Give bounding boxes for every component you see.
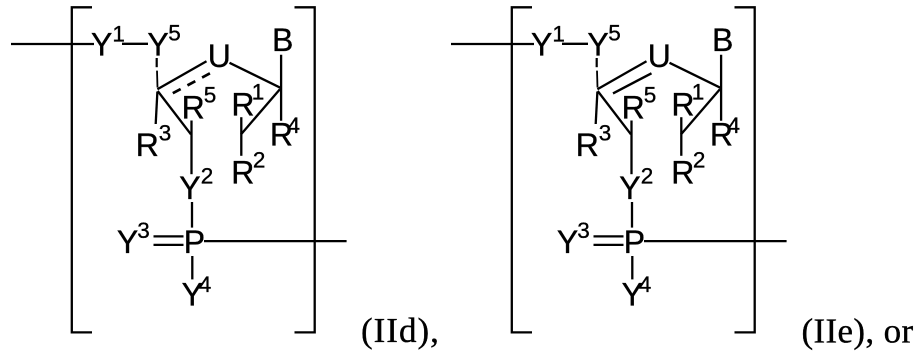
svg-text:Y: Y (117, 224, 138, 260)
bond Y2-P vertical (631, 202, 633, 228)
bond P-chain right (644, 240, 787, 242)
double bond Y3=P lower line (154, 244, 184, 246)
bond C-R2 diagonal (681, 89, 720, 134)
bond R1-R2 vertical (240, 117, 242, 156)
svg-text:3: 3 (577, 218, 590, 243)
svg-text:R: R (136, 127, 159, 163)
svg-text:3: 3 (599, 120, 612, 145)
svg-text:1: 1 (252, 79, 265, 104)
svg-text:3: 3 (137, 218, 150, 243)
svg-text:Y: Y (91, 26, 112, 62)
bond C-R2 diagonal (241, 89, 280, 134)
svg-text:R: R (622, 89, 645, 125)
svg-text:P: P (624, 224, 645, 260)
svg-text:4: 4 (728, 113, 741, 138)
bond Y2-P vertical (191, 202, 193, 228)
svg-text:2: 2 (201, 163, 214, 188)
svg-text:(IIe), or: (IIe), or (802, 311, 914, 350)
bond C-Y2 diagonal (598, 91, 631, 134)
svg-text:R: R (182, 89, 205, 125)
bond B-C-R4 vertical (280, 55, 282, 121)
svg-text:2: 2 (641, 163, 654, 188)
bond C-Y2 diagonal (158, 91, 191, 134)
svg-text:4: 4 (639, 272, 652, 297)
bond C-U (597, 61, 646, 89)
svg-text:R: R (576, 127, 599, 163)
bond C-U (157, 61, 206, 89)
bond C-R3 (596, 92, 598, 125)
double bond Y3=P upper line (154, 235, 184, 237)
bond Y5-C upper dash (596, 58, 598, 67)
inner line of C=U double bond of (IIe) (613, 73, 652, 93)
bond Y5-C upper dash (156, 58, 158, 67)
svg-text:P: P (184, 224, 205, 260)
svg-text:B: B (712, 22, 733, 58)
svg-text:R: R (231, 155, 254, 191)
svg-text:Y: Y (587, 26, 608, 62)
svg-text:4: 4 (199, 272, 212, 297)
bond Y1-Y5 (122, 43, 148, 45)
svg-text:5: 5 (608, 20, 621, 45)
svg-text:5: 5 (168, 20, 181, 45)
double bond Y3=P lower line (594, 244, 624, 246)
structure (IIe) (451, 7, 787, 332)
svg-text:Y: Y (179, 170, 200, 206)
bond P-chain right (204, 240, 347, 242)
svg-text:2: 2 (253, 148, 266, 173)
right bracket of (IId) (295, 7, 315, 332)
svg-text:(IId),: (IId), (361, 311, 440, 350)
svg-text:B: B (272, 22, 293, 58)
svg-text:1: 1 (692, 79, 705, 104)
svg-text:U: U (208, 38, 231, 74)
svg-text:2: 2 (693, 148, 706, 173)
bond Y5-C lower segment (156, 71, 159, 88)
bond P-Y4 vertical (191, 256, 193, 279)
svg-text:R: R (671, 155, 694, 191)
svg-text:1: 1 (112, 21, 125, 46)
bond R1-R2 vertical (680, 117, 682, 156)
svg-text:Y: Y (619, 170, 640, 206)
svg-text:Y: Y (531, 26, 552, 62)
bond P-Y4 vertical (631, 256, 633, 279)
structure (IId) (11, 7, 347, 332)
dashed partial double bond C~U of (IId) (173, 73, 211, 93)
svg-text:U: U (648, 38, 671, 74)
double bond Y3=P upper line (594, 235, 624, 237)
bond Y5-C lower segment (596, 71, 599, 88)
left bracket of (IId) (72, 7, 92, 332)
bond R5-Y2 vertical (630, 121, 632, 175)
svg-text:5: 5 (644, 83, 657, 108)
svg-text:1: 1 (552, 21, 565, 46)
svg-text:Y: Y (557, 224, 578, 260)
right bracket of (IIe) (735, 7, 755, 332)
bond Y1-Y5 (562, 43, 588, 45)
left bracket of (IIe) (512, 7, 532, 332)
svg-text:Y: Y (147, 26, 168, 62)
polymer chain bond into (IIe) (451, 43, 534, 45)
bond C-R3 (156, 92, 158, 125)
bond R5-Y2 vertical (190, 121, 192, 175)
bond U-C right (230, 63, 281, 88)
svg-text:5: 5 (204, 83, 217, 108)
svg-text:3: 3 (159, 120, 172, 145)
bond U-C right (670, 63, 721, 88)
bond B-C-R4 vertical (720, 55, 722, 121)
polymer chain bond into (IId) (11, 43, 94, 45)
svg-text:4: 4 (288, 113, 301, 138)
